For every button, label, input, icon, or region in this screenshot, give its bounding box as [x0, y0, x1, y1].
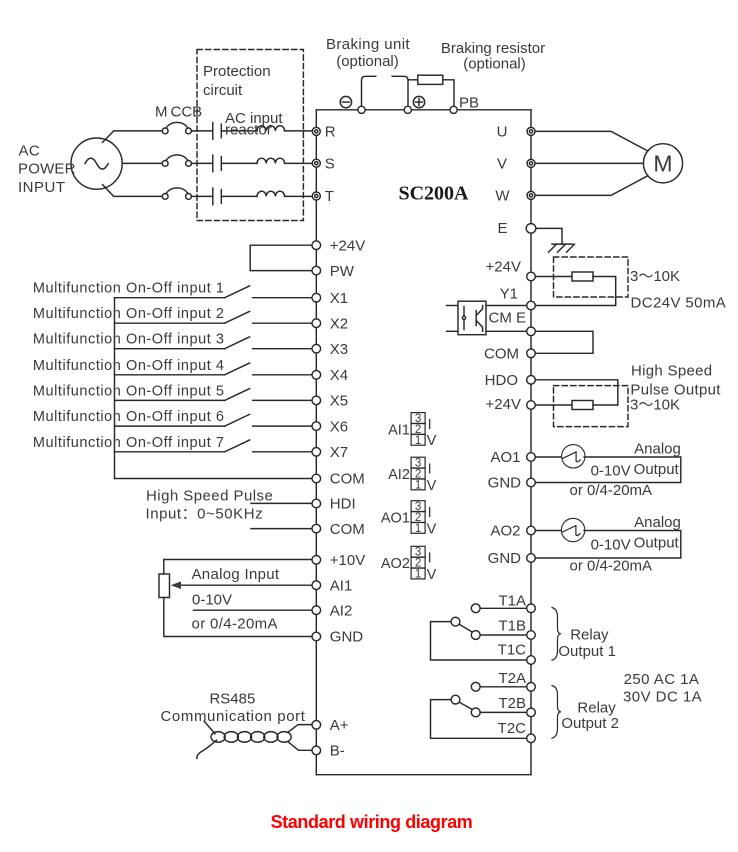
label AC input reactor [225, 110, 283, 139]
wire T1A contact to terminal [480, 607, 531, 609]
wire optocoupler to CME terminal [486, 330, 531, 332]
resistor 3~10K (Y1 load) [572, 272, 593, 281]
label Braking unit (optional) [326, 36, 410, 70]
braking resistor RB [408, 75, 454, 110]
wire AO1 to meter [531, 456, 562, 458]
terminal AO1 at y=457.0 [490, 449, 535, 466]
svg-text:Y1: Y1 [500, 286, 518, 303]
junction node on DC bus (-) [358, 106, 365, 113]
svg-text:or 0/4-20mA: or 0/4-20mA [570, 558, 653, 575]
wire inverter right bus [530, 110, 532, 775]
svg-text:circuit: circuit [203, 82, 243, 99]
label High Speed Pulse Output [630, 363, 721, 399]
reactor L3 [257, 191, 285, 196]
svg-text:T2B: T2B [498, 695, 526, 712]
svg-text:Output 1: Output 1 [558, 643, 616, 660]
svg-text:PB: PB [459, 95, 479, 112]
svg-text:X3: X3 [330, 341, 348, 358]
svg-text:T2A: T2A [498, 670, 526, 687]
svg-text:AI2: AI2 [388, 467, 410, 483]
svg-text:Braking unit: Braking unit [326, 36, 410, 53]
relay T1 pivot [451, 617, 460, 626]
svg-text:I: I [428, 417, 432, 433]
terminal +10V (p10) [312, 552, 365, 569]
wire V to motor [531, 162, 644, 164]
svg-text:Multifunction On-Off input 5: Multifunction On-Off input 5 [33, 383, 225, 399]
switch S2 (X2) [115, 311, 317, 323]
relay T2 pivot [451, 695, 460, 704]
svg-text:S: S [325, 155, 335, 172]
svg-text:A+: A+ [330, 717, 349, 734]
terminal T1C at y=660.0 [498, 642, 536, 665]
switch S3 (X3) [115, 337, 317, 349]
wire switch common bus [114, 298, 116, 479]
reactor L2 [257, 158, 285, 163]
svg-text:Braking resistor: Braking resistor [441, 40, 545, 57]
svg-text:Protection: Protection [203, 63, 271, 80]
wire optocoupler to Y1 terminal [486, 305, 531, 307]
svg-text:(optional): (optional) [336, 53, 399, 70]
jumper block AO2 [411, 546, 425, 580]
wire HDO to pull-up resistor [531, 380, 618, 405]
terminal T2C at y=738.3 [498, 720, 536, 743]
svg-text:M CCB: M CCB [155, 104, 202, 121]
wire inverter bottom edge [316, 774, 531, 776]
label High Speed Pulse Input 0~50KHz [146, 488, 274, 523]
svg-text:V: V [427, 478, 437, 494]
wire T2B contact to terminal [480, 711, 531, 713]
wire +24V-PW jumper [250, 245, 316, 270]
wire AO1 meter loop to GND [531, 457, 681, 483]
svg-text:X5: X5 [330, 393, 348, 410]
svg-text:X6: X6 [330, 418, 348, 435]
earth ground symbol [549, 244, 575, 252]
wire contactor to reactor T [221, 195, 257, 197]
label Relay Output 1 [558, 627, 616, 660]
svg-text:Analog Input: Analog Input [192, 566, 280, 583]
junction node PB [450, 106, 457, 113]
wire common bus to COM [115, 478, 317, 480]
svg-text:V: V [497, 155, 507, 172]
wire potentiometer to GND [164, 598, 316, 637]
svg-text:1: 1 [415, 523, 421, 535]
svg-text:I: I [428, 505, 432, 521]
switch S4 (X4) [115, 363, 317, 375]
terminal PW (PW) [312, 263, 355, 280]
svg-text:1: 1 [415, 479, 421, 491]
terminal X1 (X1) [312, 290, 348, 307]
svg-text:+24V: +24V [486, 396, 521, 413]
relay T2 contact A [471, 682, 480, 691]
svg-text:Output 2: Output 2 [561, 715, 619, 732]
wire resistor to +24V [531, 404, 572, 406]
svg-text:AI1: AI1 [388, 422, 410, 438]
optocoupler U1 [458, 301, 486, 335]
wire reactor to terminal T [285, 195, 317, 197]
svg-text:W: W [495, 187, 510, 204]
terminal T2B at y=712.4 [498, 695, 535, 717]
svg-text:AO1: AO1 [490, 449, 520, 466]
terminal +24V (p24) [312, 237, 365, 254]
junction node on DC bus (+) [404, 106, 411, 113]
svg-text:Standard wiring diagram: Standard wiring diagram [271, 812, 473, 832]
svg-text:Multifunction On-Off input 3: Multifunction On-Off input 3 [33, 332, 225, 348]
terminal X5 (X5) [312, 393, 348, 410]
svg-text:30V DC 1A: 30V DC 1A [623, 689, 702, 706]
svg-text:T2C: T2C [498, 720, 527, 737]
HDO load enclosure (dashed) [554, 386, 629, 427]
svg-text:RS485: RS485 [209, 690, 255, 707]
wire MCCB to contactor T [191, 195, 212, 197]
brace relay output 1 [552, 608, 561, 661]
wire U to motor [531, 131, 649, 151]
terminal (-) DC bus minus symbol [340, 96, 351, 107]
svg-text:+24V: +24V [330, 237, 365, 254]
wire AI1 wiper [171, 581, 316, 589]
terminal A+ (Ap) [312, 717, 349, 734]
wire source to MCCB phase S [122, 162, 162, 164]
wire source to MCCB phase T [103, 185, 163, 197]
svg-text:PW: PW [330, 263, 355, 280]
svg-text:0-10V: 0-10V [591, 463, 631, 480]
reactor L1 [257, 126, 285, 131]
svg-text:X7: X7 [330, 444, 348, 461]
svg-text:Multifunction On-Off input 6: Multifunction On-Off input 6 [33, 409, 225, 425]
terminal T1B at y=635.0 [498, 618, 535, 640]
motor M [643, 144, 682, 183]
terminal COM (COM) [312, 471, 365, 488]
wire contactor to reactor S [221, 162, 257, 164]
svg-text:+24V: +24V [486, 259, 521, 276]
svg-text:POWER: POWER [18, 161, 76, 178]
twisted pair loose ends [197, 721, 217, 758]
meter P1 (AO1) [562, 445, 585, 468]
svg-text:T1C: T1C [498, 642, 527, 659]
wire source to MCCB phase R [103, 131, 163, 143]
svg-text:AI2: AI2 [330, 602, 353, 619]
terminal GND (GNDl) [312, 629, 363, 646]
wire CME stub left [447, 330, 459, 332]
svg-text:AO1: AO1 [381, 510, 410, 526]
svg-text:0-10V: 0-10V [591, 537, 631, 554]
svg-text:High Speed Pulse: High Speed Pulse [146, 488, 273, 505]
terminal Y1 at y=305.5 [500, 286, 536, 310]
svg-text:Communication port: Communication port [160, 708, 305, 725]
potentiometer RP [159, 574, 170, 598]
braking unit bracket left [362, 76, 376, 110]
terminal T2A at y=686.8 [498, 670, 535, 691]
svg-text:R: R [325, 124, 336, 141]
terminal CME at y=331.3 [527, 327, 536, 336]
relay T1 contact A [471, 604, 480, 613]
svg-text:Multifunction On-Off input 1: Multifunction On-Off input 1 [33, 281, 225, 297]
svg-text:250 AC 1A: 250 AC 1A [624, 671, 700, 688]
label AC POWER INPUT [18, 142, 76, 196]
relay T2 moving contact arm [459, 702, 472, 709]
resistor 3~10K (HDO load) [572, 401, 593, 410]
terminal HDI (HDI) [312, 496, 356, 513]
jumper block AO1 [411, 501, 425, 535]
terminal GND at y=482.5 [488, 475, 536, 492]
svg-text:SC200A: SC200A [398, 182, 469, 204]
svg-text:GND: GND [488, 550, 522, 567]
wire T1B contact to terminal [480, 634, 531, 636]
wire COM stub [251, 528, 316, 530]
wire resistor to Y1 [531, 277, 616, 306]
wire T2A contact to terminal [480, 686, 531, 688]
svg-text:T: T [325, 188, 334, 205]
wire W to motor [531, 175, 649, 195]
svg-text:X1: X1 [330, 290, 348, 307]
svg-text:V: V [427, 521, 437, 537]
relay T1 moving contact arm [459, 624, 472, 632]
svg-text:CM E: CM E [489, 310, 527, 327]
wire twisted pair to A+ [289, 725, 317, 732]
svg-text:INPUT: INPUT [18, 179, 66, 196]
wire +24V to braking resistor (Y1 load) [531, 276, 572, 278]
svg-text:AC: AC [19, 142, 41, 159]
twisted pair cable [211, 732, 291, 743]
breaker MCCB pole R [162, 122, 191, 133]
svg-text:Output: Output [634, 535, 680, 552]
terminal S (S) [312, 155, 335, 172]
svg-text:COM: COM [330, 521, 365, 538]
svg-text:COM: COM [484, 346, 519, 363]
breaker MCCB pole S [162, 155, 191, 166]
svg-text:B-: B- [330, 743, 345, 760]
svg-text:or 0/4-20mA: or 0/4-20mA [570, 482, 653, 499]
contactor contact K2 [213, 155, 222, 172]
terminal +24V at y=405.0 [486, 396, 536, 413]
wire HDI input [251, 502, 316, 504]
svg-text:DC24V 50mA: DC24V 50mA [631, 295, 727, 312]
wire E to earth [531, 228, 562, 244]
svg-text:Analog: Analog [634, 514, 681, 531]
svg-text:1: 1 [415, 435, 421, 447]
wire reactor to terminal R [285, 130, 317, 132]
svg-text:1: 1 [415, 568, 421, 580]
switch S1 (X1) [115, 286, 317, 298]
svg-text:I: I [428, 462, 432, 478]
terminal X3 (X3) [312, 341, 348, 358]
svg-text:HDO: HDO [485, 372, 518, 389]
jumper block AI2 [411, 457, 425, 491]
svg-text:+10V: +10V [330, 552, 365, 569]
svg-text:V: V [427, 433, 437, 449]
svg-text:V: V [427, 567, 437, 583]
terminal B- (Bm) [312, 743, 345, 760]
svg-text:GND: GND [330, 629, 364, 646]
wire +10V to potentiometer [164, 560, 316, 575]
terminal GND at y=558.0 [488, 550, 536, 567]
svg-text:(optional): (optional) [463, 56, 526, 73]
terminal (+) DC bus plus symbol [413, 96, 424, 107]
Y1 load enclosure (dashed) [554, 257, 629, 297]
terminal T1A at y=608.3 [498, 592, 535, 612]
terminal X6 (X6) [312, 418, 348, 435]
terminal X2 (X2) [312, 315, 348, 332]
contactor contact K1 [213, 123, 222, 140]
svg-text:0-10V: 0-10V [192, 591, 232, 608]
svg-text:T1B: T1B [498, 618, 526, 635]
contactor contact K3 [213, 188, 222, 205]
svg-text:reactor: reactor [225, 122, 272, 139]
svg-text:I: I [428, 551, 432, 567]
terminal U at y=131.4 [497, 123, 535, 140]
wire Y1 stub left [447, 305, 459, 307]
terminal COM (COM2) [312, 521, 365, 538]
switch S7 (X7) [115, 440, 317, 452]
terminal AO2 at y=530.5 [490, 523, 535, 540]
svg-text:High Speed: High Speed [631, 363, 712, 380]
AC source G1 [71, 138, 122, 189]
wire inverter left bus [315, 110, 317, 775]
breaker MCCB pole T [162, 188, 191, 199]
svg-text:M: M [653, 151, 672, 177]
terminal V at y=163.4 [497, 155, 535, 172]
svg-text:X2: X2 [330, 315, 348, 332]
svg-text:AO2: AO2 [381, 556, 410, 572]
wire relay common to T2C [431, 700, 532, 739]
wire MCCB to contactor S [191, 162, 212, 164]
svg-text:U: U [497, 123, 508, 140]
jumper block AI1 [411, 413, 425, 447]
wire twisted pair to B- [289, 742, 317, 750]
svg-text:Multifunction On-Off input 2: Multifunction On-Off input 2 [33, 306, 225, 322]
braking unit bracket right [392, 76, 408, 110]
label Analog Output (AO2) [634, 514, 681, 552]
switch S5 (X5) [115, 389, 317, 401]
svg-text:Output: Output [634, 461, 680, 478]
label Protection circuit [203, 63, 271, 99]
label Relay Output 2 [561, 699, 619, 732]
meter P2 (AO2) [561, 518, 584, 541]
wire AO2 meter loop to GND [531, 531, 681, 559]
svg-text:Relay: Relay [577, 699, 616, 716]
terminal R (R) [312, 124, 336, 141]
svg-text:Input：0~50KHz: Input：0~50KHz [146, 505, 264, 522]
svg-text:Analog: Analog [634, 441, 681, 458]
terminal AI1 (AI1l) [312, 577, 352, 594]
wire contactor to reactor R [221, 130, 257, 132]
wire inverter top edge (DC bus) [316, 109, 531, 111]
svg-text:AI1: AI1 [330, 577, 353, 594]
terminal E at y=228.4 [497, 220, 535, 237]
terminal AI2 (AI2l) [312, 602, 352, 619]
protection circuit enclosure (dashed) [197, 50, 303, 221]
terminal +24V at y=276.5 [486, 259, 536, 281]
terminal HDO at y=379.8 [485, 372, 536, 389]
svg-text:Relay: Relay [570, 627, 609, 644]
svg-text:AO2: AO2 [490, 523, 520, 540]
wire AO2 to meter [531, 530, 562, 532]
svg-text:X4: X4 [330, 367, 348, 384]
terminal COM at y=353.3 [484, 346, 535, 363]
svg-text:T1A: T1A [498, 592, 526, 609]
svg-text:Multifunction On-Off input 4: Multifunction On-Off input 4 [33, 358, 225, 374]
relay T1 contact B [471, 631, 480, 640]
wire AI2 input [194, 609, 317, 611]
relay T2 contact B [471, 708, 480, 717]
wire relay common to T1C [431, 622, 532, 660]
terminal X7 (X7) [312, 444, 348, 461]
switch S6 (X6) [115, 414, 317, 426]
wire CME-COM jumper [531, 331, 593, 353]
svg-text:or 0/4-20mA: or 0/4-20mA [192, 615, 278, 632]
svg-text:HDI: HDI [330, 496, 356, 513]
terminal T (T) [312, 188, 334, 205]
svg-text:E: E [497, 220, 507, 237]
terminal X4 (X4) [312, 367, 348, 384]
svg-text:Multifunction On-Off input 7: Multifunction On-Off input 7 [33, 435, 225, 451]
brace relay output 2 [552, 686, 561, 739]
svg-text:COM: COM [330, 471, 365, 488]
wire MCCB to contactor R [191, 130, 212, 132]
wire reactor to terminal S [285, 162, 317, 164]
svg-text:3～10K: 3～10K [630, 268, 680, 285]
terminal W at y=195.4 [495, 187, 535, 204]
label Braking resistor (optional) [441, 40, 545, 73]
label RS485 Communication port [160, 690, 305, 725]
svg-text:GND: GND [488, 475, 522, 492]
svg-text:3～10K: 3～10K [630, 397, 680, 414]
label Analog Output (AO1) [634, 441, 681, 479]
